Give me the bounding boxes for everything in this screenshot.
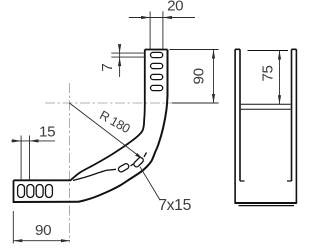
svg-text:7x15: 7x15 xyxy=(158,197,191,214)
svg-text:90: 90 xyxy=(191,68,208,84)
svg-text:75: 75 xyxy=(259,65,276,81)
svg-text:15: 15 xyxy=(39,123,55,140)
svg-text:20: 20 xyxy=(167,0,183,14)
svg-text:7: 7 xyxy=(99,64,116,72)
svg-text:90: 90 xyxy=(35,222,51,239)
